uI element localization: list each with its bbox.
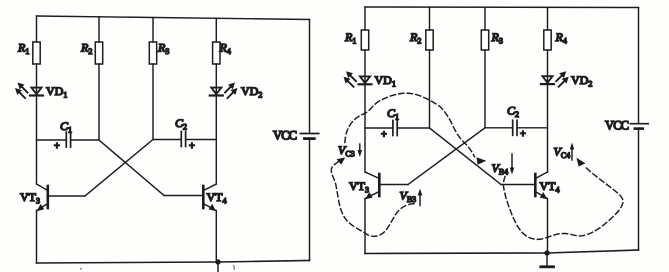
wire: cross diagonal C2/R3 node to VT3 base (right) xyxy=(408,128,485,185)
wire: VT4 emitter down to ground junction (right) xyxy=(547,199,549,254)
LED VD1 xyxy=(15,83,43,99)
resistor R4 (right) xyxy=(544,30,551,50)
wire: R2 bottom lead to C1/R2 node xyxy=(98,64,100,140)
wire: VT4 emitter down to bottom rail xyxy=(215,211,217,263)
svg-text:VT3: VT3 xyxy=(20,190,40,206)
wire: top supply rail (right circuit) xyxy=(365,6,639,9)
wire: R4 top lead (right) xyxy=(547,7,549,30)
resistor R3 (right) xyxy=(481,30,488,50)
wire: C1 left lead (taps VT3 collector branch) xyxy=(37,139,66,141)
wire: VT3 emitter down to bottom rail (right) xyxy=(364,199,366,254)
wire: C2 left lead (right) xyxy=(485,127,512,129)
wire: battery negative down to bottom rail (right) xyxy=(638,129,640,250)
resistor R1 xyxy=(33,42,40,64)
svg-text:VB4: VB4 xyxy=(492,161,509,177)
svg-text:R2: R2 xyxy=(80,41,92,57)
svg-text:R4: R4 xyxy=(555,30,567,46)
svg-text:VD2: VD2 xyxy=(571,73,592,89)
battery VCC (left circuit) xyxy=(300,134,318,139)
svg-text:VT3: VT3 xyxy=(349,179,369,195)
svg-text:VCC: VCC xyxy=(605,119,629,133)
label V_C4 with voltage arrow xyxy=(554,143,575,161)
svg-text:VB3: VB3 xyxy=(400,189,417,205)
wire: bottom ground rail (right circuit) xyxy=(365,250,639,254)
svg-text:C2: C2 xyxy=(507,104,519,120)
wire: C2 left lead xyxy=(153,139,181,141)
svg-text:VT4: VT4 xyxy=(540,179,560,195)
svg-text:R2: R2 xyxy=(409,30,421,46)
svg-text:R1: R1 xyxy=(344,30,356,46)
wire: cross diagonal C1/R2 node to VT4 base (right) xyxy=(430,128,502,185)
svg-text:VCC: VCC xyxy=(273,129,297,143)
wire: R3 top lead (right) xyxy=(484,7,486,30)
ground xyxy=(541,253,554,267)
wire: VT4 base horizontal (right) xyxy=(501,184,534,186)
capacitor C1 (right) xyxy=(393,121,397,136)
LED VD2 xyxy=(210,83,238,99)
resistor R4 xyxy=(213,42,220,64)
arrowhead: mid-path arrow of left dashed loop (near V_C3) xyxy=(337,157,346,164)
arrowhead: end of left dashed loop pointing at V_B4 xyxy=(476,157,486,165)
svg-text:R4: R4 xyxy=(219,41,231,57)
speck (scan mark) xyxy=(80,268,82,270)
wire: R4 to VD2 xyxy=(215,64,217,95)
wire: R2 top lead (right) xyxy=(429,7,431,30)
svg-text:+: + xyxy=(381,130,387,141)
svg-text:VC4: VC4 xyxy=(554,145,571,161)
battery VCC (right circuit) xyxy=(630,124,648,129)
wire: R1 top lead (right) xyxy=(364,7,366,30)
wire: dashed current loop (left, around VT3/C1) xyxy=(331,93,474,236)
capacitor C1 xyxy=(66,132,70,147)
wire: VCC branch from top rail (right) xyxy=(638,8,640,124)
svg-text:+: + xyxy=(54,141,60,152)
capacitor C2 (right) xyxy=(513,120,517,135)
node: emitter/ground junction dot (right) xyxy=(544,250,549,255)
capacitor C2 xyxy=(181,132,185,147)
wire: VD1 cathode down VT3 collector branch (right) xyxy=(364,84,366,172)
transistor VT3 xyxy=(37,184,48,211)
wire: VD1 cathode down VT3 collector branch xyxy=(36,96,38,184)
wire: VT3 base horizontal (right) xyxy=(380,184,408,186)
transistor VT3 (right) xyxy=(365,172,379,199)
wire: R1 to VD1 xyxy=(36,64,38,95)
wire: R1 top lead xyxy=(36,16,38,42)
svg-text:VT4: VT4 xyxy=(207,190,227,206)
arrowhead: end of right dashed loop pointing at V_C4 xyxy=(576,158,585,167)
svg-text:C1: C1 xyxy=(60,119,72,135)
wire: C2 right lead to VT4 collector branch xyxy=(186,139,216,141)
resistor R1 (right) xyxy=(361,30,368,50)
svg-text:VC3: VC3 xyxy=(338,143,355,159)
resistor R3 xyxy=(149,42,156,64)
svg-text:C2: C2 xyxy=(175,116,187,132)
wire: C1 right lead to R2 junction xyxy=(71,139,99,141)
wire: C2 right lead to VT4 collector branch (right) xyxy=(518,127,548,129)
wire: dashed current loop (left) upper section continuing over C1 xyxy=(345,93,475,157)
wire: C1 right lead to R2 junction (right) xyxy=(398,127,430,129)
svg-text:VD1: VD1 xyxy=(375,73,396,89)
wire: R3 top lead xyxy=(152,18,154,43)
LED VD2 (right) xyxy=(541,71,569,87)
wire: R1 to VD1 (right) xyxy=(364,50,366,84)
label V_B4 with voltage arrow xyxy=(492,154,515,177)
svg-text:+: + xyxy=(189,141,195,152)
wire: bottom ground rail (left circuit) xyxy=(37,261,310,264)
svg-text:C1: C1 xyxy=(387,106,399,122)
wire: R4 top lead xyxy=(215,18,217,42)
resistor R2 xyxy=(95,42,102,64)
wire: VD2 cathode down to VT4 collector xyxy=(215,96,217,184)
wire: ground stub below junction xyxy=(217,262,219,272)
transistor VT4 xyxy=(203,184,216,211)
wire: VT4 base horizontal segment xyxy=(164,195,202,197)
wire: top supply rail (left circuit) xyxy=(37,16,310,20)
svg-text:+: + xyxy=(520,129,526,140)
svg-text:VD2: VD2 xyxy=(241,84,262,100)
wire: R3 bottom lead to C2/R3 node xyxy=(152,64,154,140)
wire: VCC branch from top rail xyxy=(309,20,311,134)
wire: VT3 emitter down to bottom rail xyxy=(36,211,38,264)
wire: dashed current loop (right, around VT4) xyxy=(503,166,622,239)
label V_B3 with voltage arrow xyxy=(400,189,423,206)
wire: cross-coupling diagonal from C1/R2 node to VT4 base xyxy=(99,140,164,196)
wire: R4 to VD2 (right) xyxy=(547,50,549,84)
svg-text:R1: R1 xyxy=(17,41,29,57)
label V_C3 with voltage arrow xyxy=(338,143,362,159)
svg-text:R3: R3 xyxy=(157,41,169,57)
wire: C1 left lead (right) xyxy=(365,127,392,129)
wire: R3 bottom lead (right) xyxy=(484,50,486,128)
wire: cross-coupling diagonal from C2/R3 node to VT3 base xyxy=(85,140,153,197)
wire: VT3 base horizontal segment xyxy=(49,195,85,197)
transistor VT4 (right) xyxy=(535,172,547,199)
wire: VD2 cathode down to VT4 collector (right) xyxy=(547,84,549,172)
svg-text:R3: R3 xyxy=(491,30,503,46)
speck (scan mark) xyxy=(233,266,236,270)
svg-text:VD1: VD1 xyxy=(46,84,67,100)
wire: R2 bottom lead (right) xyxy=(429,50,431,128)
wire: R2 top lead xyxy=(98,17,100,42)
node: emitter/ground junction dot xyxy=(215,259,220,264)
resistor R2 (right) xyxy=(426,30,433,50)
wire: battery negative down to bottom rail xyxy=(309,139,311,261)
LED VD1 (right) xyxy=(344,71,372,87)
